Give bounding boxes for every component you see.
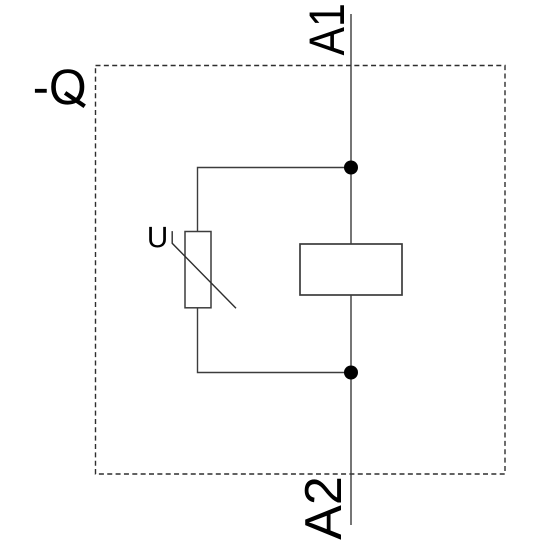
wire bottom branch (varistor bottom to junction) [198, 308, 352, 373]
label U [149, 227, 166, 248]
wire top branch (junction to varistor top) [198, 168, 352, 232]
terminal label A1 [310, 5, 344, 55]
label -Q [35, 69, 85, 106]
terminal label A2 [305, 479, 341, 540]
wire A1 (main vertical) [350, 14, 352, 525]
junction node top [344, 161, 358, 175]
junction node bottom [344, 366, 358, 380]
varistor U body [185, 232, 211, 308]
dashed enclosure -Q boundary [96, 66, 506, 475]
contactor coil body [300, 244, 402, 295]
varistor U diagonal stroke [172, 231, 236, 308]
